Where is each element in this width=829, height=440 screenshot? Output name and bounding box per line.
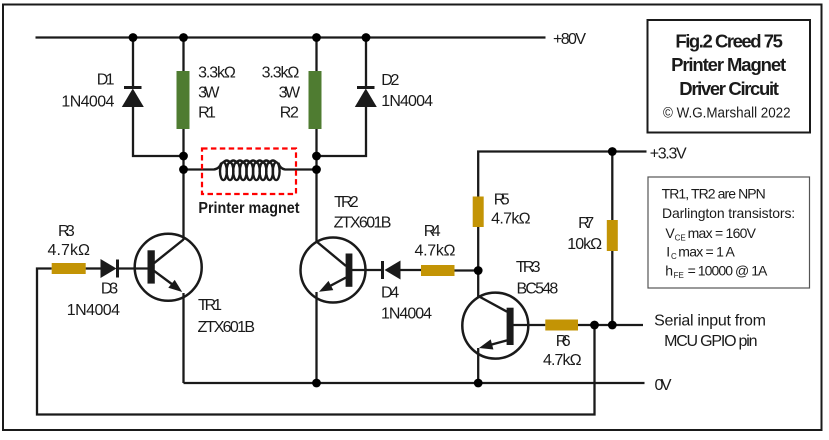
svg-text:max = 160V: max = 160V xyxy=(688,225,757,241)
wire R3 to D3 xyxy=(86,267,101,269)
svg-text:TR2: TR2 xyxy=(334,194,359,211)
node dot magnet right xyxy=(312,165,321,174)
svg-text:4.7kΩ: 4.7kΩ xyxy=(415,243,456,260)
svg-text:max = 1 A: max = 1 A xyxy=(678,244,735,260)
resistor R6 xyxy=(545,320,578,331)
resistor R1 xyxy=(177,71,190,129)
svg-text:h: h xyxy=(665,263,673,279)
svg-text:ZTX601B: ZTX601B xyxy=(198,319,256,336)
diode D3 xyxy=(101,259,118,278)
svg-text:+3.3V: +3.3V xyxy=(650,146,687,163)
svg-text:10kΩ: 10kΩ xyxy=(567,236,602,253)
wire TR3 emitter down xyxy=(477,348,479,383)
node dot TR3 emitter 0V xyxy=(474,379,483,388)
wire R4 to node xyxy=(455,269,479,271)
wire D2 top xyxy=(365,38,367,88)
svg-text:CE: CE xyxy=(675,233,686,242)
svg-text:1N4004: 1N4004 xyxy=(61,93,114,110)
svg-text:BC548: BC548 xyxy=(517,281,559,298)
title box xyxy=(648,20,811,133)
svg-text:Darlington transistors:: Darlington transistors: xyxy=(662,205,795,221)
svg-text:TR3: TR3 xyxy=(516,259,541,276)
svg-text:D4: D4 xyxy=(381,285,399,302)
node dot D2/R2 xyxy=(312,152,321,161)
wire +3.3V rail xyxy=(478,152,646,197)
wire R1 column to TR1 collector xyxy=(182,128,184,240)
wire D2 bottom to node xyxy=(317,107,367,157)
svg-text:R4: R4 xyxy=(424,223,441,240)
svg-text:4.7kΩ: 4.7kΩ xyxy=(543,352,582,369)
transistor TR1 xyxy=(135,234,202,301)
wire D4 to R4 xyxy=(401,269,422,271)
svg-text:Fig.2 Creed 75: Fig.2 Creed 75 xyxy=(675,31,783,52)
svg-text:3W: 3W xyxy=(279,85,301,102)
svg-text:TR1: TR1 xyxy=(198,297,222,314)
svg-text:Printer Magnet: Printer Magnet xyxy=(671,54,786,75)
svg-text:R6: R6 xyxy=(556,333,571,350)
wire R5 to node xyxy=(477,227,479,271)
node dot serial/R7 xyxy=(608,321,617,330)
node dot +80V/D1 xyxy=(129,33,138,42)
diode D1 xyxy=(122,88,144,108)
svg-text:+80V: +80V xyxy=(553,31,586,48)
svg-text:R5: R5 xyxy=(494,192,510,209)
svg-text:3.3kΩ: 3.3kΩ xyxy=(262,64,300,81)
wire D1 top xyxy=(132,38,134,88)
svg-text:© W.G.Marshall 2022: © W.G.Marshall 2022 xyxy=(663,106,791,122)
node dot serial/input xyxy=(590,321,599,330)
svg-text:1N4004: 1N4004 xyxy=(67,302,120,319)
svg-text:Driver Circuit: Driver Circuit xyxy=(679,78,779,99)
node dot +80V/D2 xyxy=(362,33,371,42)
resistor R3 xyxy=(52,263,86,274)
node dot TR2 emitter 0V xyxy=(312,379,321,388)
svg-text:R2: R2 xyxy=(280,105,299,122)
svg-text:4.7kΩ: 4.7kΩ xyxy=(48,242,91,259)
wire serial input loop xyxy=(37,269,595,415)
svg-text:D3: D3 xyxy=(101,281,118,298)
svg-text:D1: D1 xyxy=(97,72,115,89)
wire R2 column to TR2 collector xyxy=(315,128,317,243)
transistor TR3 xyxy=(462,293,528,359)
node dot +80V/R2 xyxy=(312,33,321,42)
resistor R4 xyxy=(421,265,455,276)
svg-text:MCU GPIO pin: MCU GPIO pin xyxy=(664,333,757,350)
svg-text:4.7kΩ: 4.7kΩ xyxy=(491,210,531,227)
svg-text:3W: 3W xyxy=(198,85,220,102)
wire R2 column top xyxy=(315,38,317,73)
diode D2 xyxy=(355,88,377,108)
resistor R5 xyxy=(473,197,484,228)
svg-text:1N4004: 1N4004 xyxy=(381,306,432,323)
wire TR1 emitter down xyxy=(182,293,184,383)
printer magnet box (red dashed) xyxy=(202,149,296,195)
node dot +80V/R1 xyxy=(179,33,188,42)
node dot R4/R5/TR3 xyxy=(474,266,483,275)
wire 0V rail xyxy=(184,382,645,384)
wire magnet left lead xyxy=(184,168,215,170)
wire R7 top xyxy=(611,152,613,221)
svg-text:Serial input from: Serial input from xyxy=(654,312,766,329)
svg-text:TR1, TR2 are NPN: TR1, TR2 are NPN xyxy=(662,186,766,202)
resistor R2 xyxy=(309,71,322,129)
wire R1 column top xyxy=(182,38,184,73)
svg-text:FE: FE xyxy=(674,271,684,280)
transistor TR2 xyxy=(301,238,366,303)
wire D1 bottom to node xyxy=(133,107,184,157)
wire TR2 emitter down xyxy=(315,292,317,383)
node dot D1/R1 xyxy=(179,152,188,161)
svg-text:C: C xyxy=(671,252,677,261)
wire +80V rail xyxy=(36,36,546,38)
wire R7 bottom xyxy=(611,251,613,325)
node dot +3.3V/R7 xyxy=(608,147,617,156)
wire TR2 base to D4 xyxy=(352,269,381,271)
wire D3 to TR1 base xyxy=(119,267,148,269)
svg-text:1N4004: 1N4004 xyxy=(381,93,433,110)
node dot magnet left xyxy=(179,165,188,174)
svg-text:3.3kΩ: 3.3kΩ xyxy=(198,64,236,81)
svg-text:= 10000 @ 1A: = 10000 @ 1A xyxy=(688,263,768,279)
info box xyxy=(648,177,810,288)
resistor R7 xyxy=(607,220,618,251)
svg-text:Printer magnet: Printer magnet xyxy=(198,200,300,217)
inductor L1 printer magnet coil xyxy=(214,161,285,181)
svg-text:D2: D2 xyxy=(381,72,399,89)
svg-text:R1: R1 xyxy=(198,105,216,122)
wire TR3 base to R6 xyxy=(514,324,546,326)
wire R6 to serial line xyxy=(578,324,643,326)
wire node to TR3 collector xyxy=(477,271,479,297)
svg-text:R3: R3 xyxy=(58,223,75,240)
diode D4 xyxy=(383,261,401,280)
wire magnet right lead xyxy=(285,168,317,170)
svg-text:I: I xyxy=(666,244,670,260)
svg-text:ZTX601B: ZTX601B xyxy=(334,214,392,231)
svg-text:R7: R7 xyxy=(578,215,594,232)
svg-text:0V: 0V xyxy=(655,377,672,394)
